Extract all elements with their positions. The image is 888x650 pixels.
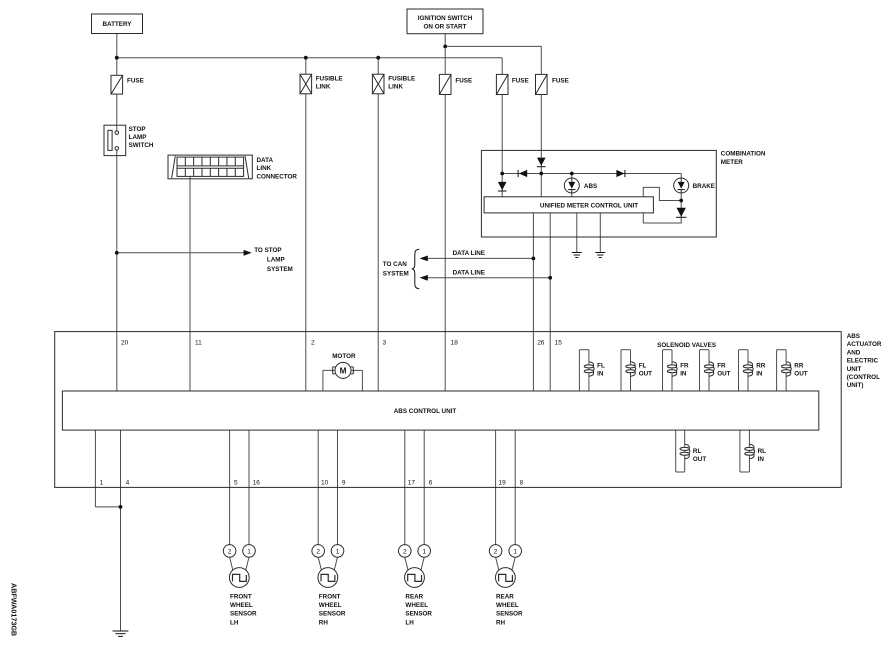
svg-text:2: 2 — [316, 548, 320, 555]
svg-text:BATTERY: BATTERY — [102, 21, 132, 28]
svg-text:FR: FR — [717, 363, 726, 370]
svg-text:FRONT: FRONT — [230, 594, 252, 601]
svg-text:ABFWA0173GB: ABFWA0173GB — [10, 583, 19, 636]
svg-text:1: 1 — [336, 548, 340, 555]
svg-text:(CONTROL: (CONTROL — [847, 374, 880, 381]
svg-text:ON OR START: ON OR START — [424, 23, 467, 30]
svg-text:FUSIBLE: FUSIBLE — [316, 75, 343, 82]
svg-text:RR: RR — [756, 363, 766, 370]
svg-text:SENSOR: SENSOR — [319, 611, 346, 618]
svg-text:16: 16 — [253, 480, 261, 487]
svg-text:2: 2 — [494, 548, 498, 555]
svg-text:ACTUATOR: ACTUATOR — [847, 341, 882, 348]
svg-text:LINK: LINK — [388, 83, 403, 90]
svg-text:IN: IN — [756, 371, 763, 378]
svg-text:5: 5 — [234, 480, 238, 487]
svg-text:SYSTEM: SYSTEM — [267, 266, 293, 273]
svg-text:20: 20 — [121, 339, 129, 346]
svg-text:IN: IN — [758, 456, 765, 463]
svg-text:LINK: LINK — [316, 83, 331, 90]
svg-text:IN: IN — [597, 371, 604, 378]
svg-text:UNIFIED METER CONTROL UNIT: UNIFIED METER CONTROL UNIT — [540, 203, 638, 210]
svg-text:18: 18 — [451, 339, 459, 346]
svg-text:FUSIBLE: FUSIBLE — [388, 75, 415, 82]
svg-text:2: 2 — [403, 548, 407, 555]
svg-text:CONNECTOR: CONNECTOR — [257, 173, 298, 180]
svg-text:WHEEL: WHEEL — [405, 602, 428, 609]
svg-text:ABS CONTROL UNIT: ABS CONTROL UNIT — [394, 408, 457, 415]
svg-text:FL: FL — [597, 363, 605, 370]
svg-text:1: 1 — [247, 548, 251, 555]
svg-text:2: 2 — [311, 339, 315, 346]
svg-text:COMBINATION: COMBINATION — [721, 151, 766, 158]
svg-text:IGNITION SWITCH: IGNITION SWITCH — [418, 15, 473, 22]
svg-text:DATA LINE: DATA LINE — [453, 250, 485, 257]
svg-text:RL: RL — [693, 448, 702, 455]
svg-text:RR: RR — [794, 363, 804, 370]
svg-text:17: 17 — [408, 480, 416, 487]
svg-text:26: 26 — [537, 339, 545, 346]
svg-text:OUT: OUT — [639, 371, 652, 378]
svg-text:FUSE: FUSE — [512, 77, 529, 84]
svg-text:WHEEL: WHEEL — [319, 602, 342, 609]
svg-text:TO CAN: TO CAN — [383, 261, 407, 268]
svg-text:FRONT: FRONT — [319, 594, 341, 601]
svg-text:ABS: ABS — [584, 183, 597, 190]
svg-text:ELECTRIC: ELECTRIC — [847, 358, 879, 365]
svg-text:2: 2 — [228, 548, 232, 555]
svg-text:3: 3 — [383, 339, 387, 346]
svg-text:M: M — [340, 366, 347, 375]
svg-text:6: 6 — [429, 480, 433, 487]
svg-text:19: 19 — [499, 480, 507, 487]
svg-text:OUT: OUT — [794, 371, 807, 378]
svg-text:SOLENOID VALVES: SOLENOID VALVES — [657, 342, 716, 349]
svg-text:SYSTEM: SYSTEM — [383, 270, 409, 277]
svg-text:WHEEL: WHEEL — [230, 602, 253, 609]
svg-text:STOP: STOP — [129, 126, 146, 133]
svg-text:RL: RL — [758, 448, 767, 455]
svg-text:UNIT): UNIT) — [847, 382, 864, 389]
svg-text:FL: FL — [639, 363, 647, 370]
svg-text:ABS: ABS — [847, 333, 860, 340]
svg-text:FR: FR — [680, 363, 689, 370]
svg-text:DATA LINE: DATA LINE — [453, 270, 485, 277]
svg-text:1: 1 — [100, 480, 104, 487]
svg-text:AND: AND — [847, 349, 861, 356]
svg-text:METER: METER — [721, 159, 743, 166]
svg-text:15: 15 — [555, 339, 563, 346]
svg-text:OUT: OUT — [717, 371, 730, 378]
svg-text:TO STOP: TO STOP — [254, 247, 281, 254]
svg-text:SENSOR: SENSOR — [405, 611, 432, 618]
svg-text:9: 9 — [342, 480, 346, 487]
svg-text:LH: LH — [230, 619, 239, 626]
svg-text:SENSOR: SENSOR — [496, 611, 523, 618]
svg-text:IN: IN — [680, 371, 687, 378]
svg-text:UNIT: UNIT — [847, 366, 862, 373]
svg-text:BRAKE: BRAKE — [693, 183, 715, 190]
svg-text:REAR: REAR — [405, 594, 423, 601]
svg-text:MOTOR: MOTOR — [332, 353, 356, 360]
svg-text:WHEEL: WHEEL — [496, 602, 519, 609]
svg-text:1: 1 — [422, 548, 426, 555]
svg-text:1: 1 — [513, 548, 517, 555]
svg-text:FUSE: FUSE — [455, 77, 472, 84]
svg-text:SWITCH: SWITCH — [129, 142, 154, 149]
svg-text:REAR: REAR — [496, 594, 514, 601]
svg-text:4: 4 — [126, 480, 130, 487]
svg-text:LAMP: LAMP — [267, 256, 285, 263]
svg-text:RH: RH — [496, 619, 506, 626]
svg-text:8: 8 — [520, 480, 524, 487]
svg-text:LAMP: LAMP — [129, 134, 147, 141]
svg-text:LH: LH — [405, 619, 414, 626]
svg-text:LINK: LINK — [257, 165, 272, 172]
svg-text:OUT: OUT — [693, 456, 706, 463]
svg-text:11: 11 — [195, 339, 202, 346]
svg-text:FUSE: FUSE — [127, 77, 144, 84]
svg-text:10: 10 — [321, 480, 329, 487]
svg-text:FUSE: FUSE — [552, 77, 569, 84]
svg-text:RH: RH — [319, 619, 329, 626]
svg-text:DATA: DATA — [257, 157, 274, 164]
svg-text:SENSOR: SENSOR — [230, 611, 257, 618]
